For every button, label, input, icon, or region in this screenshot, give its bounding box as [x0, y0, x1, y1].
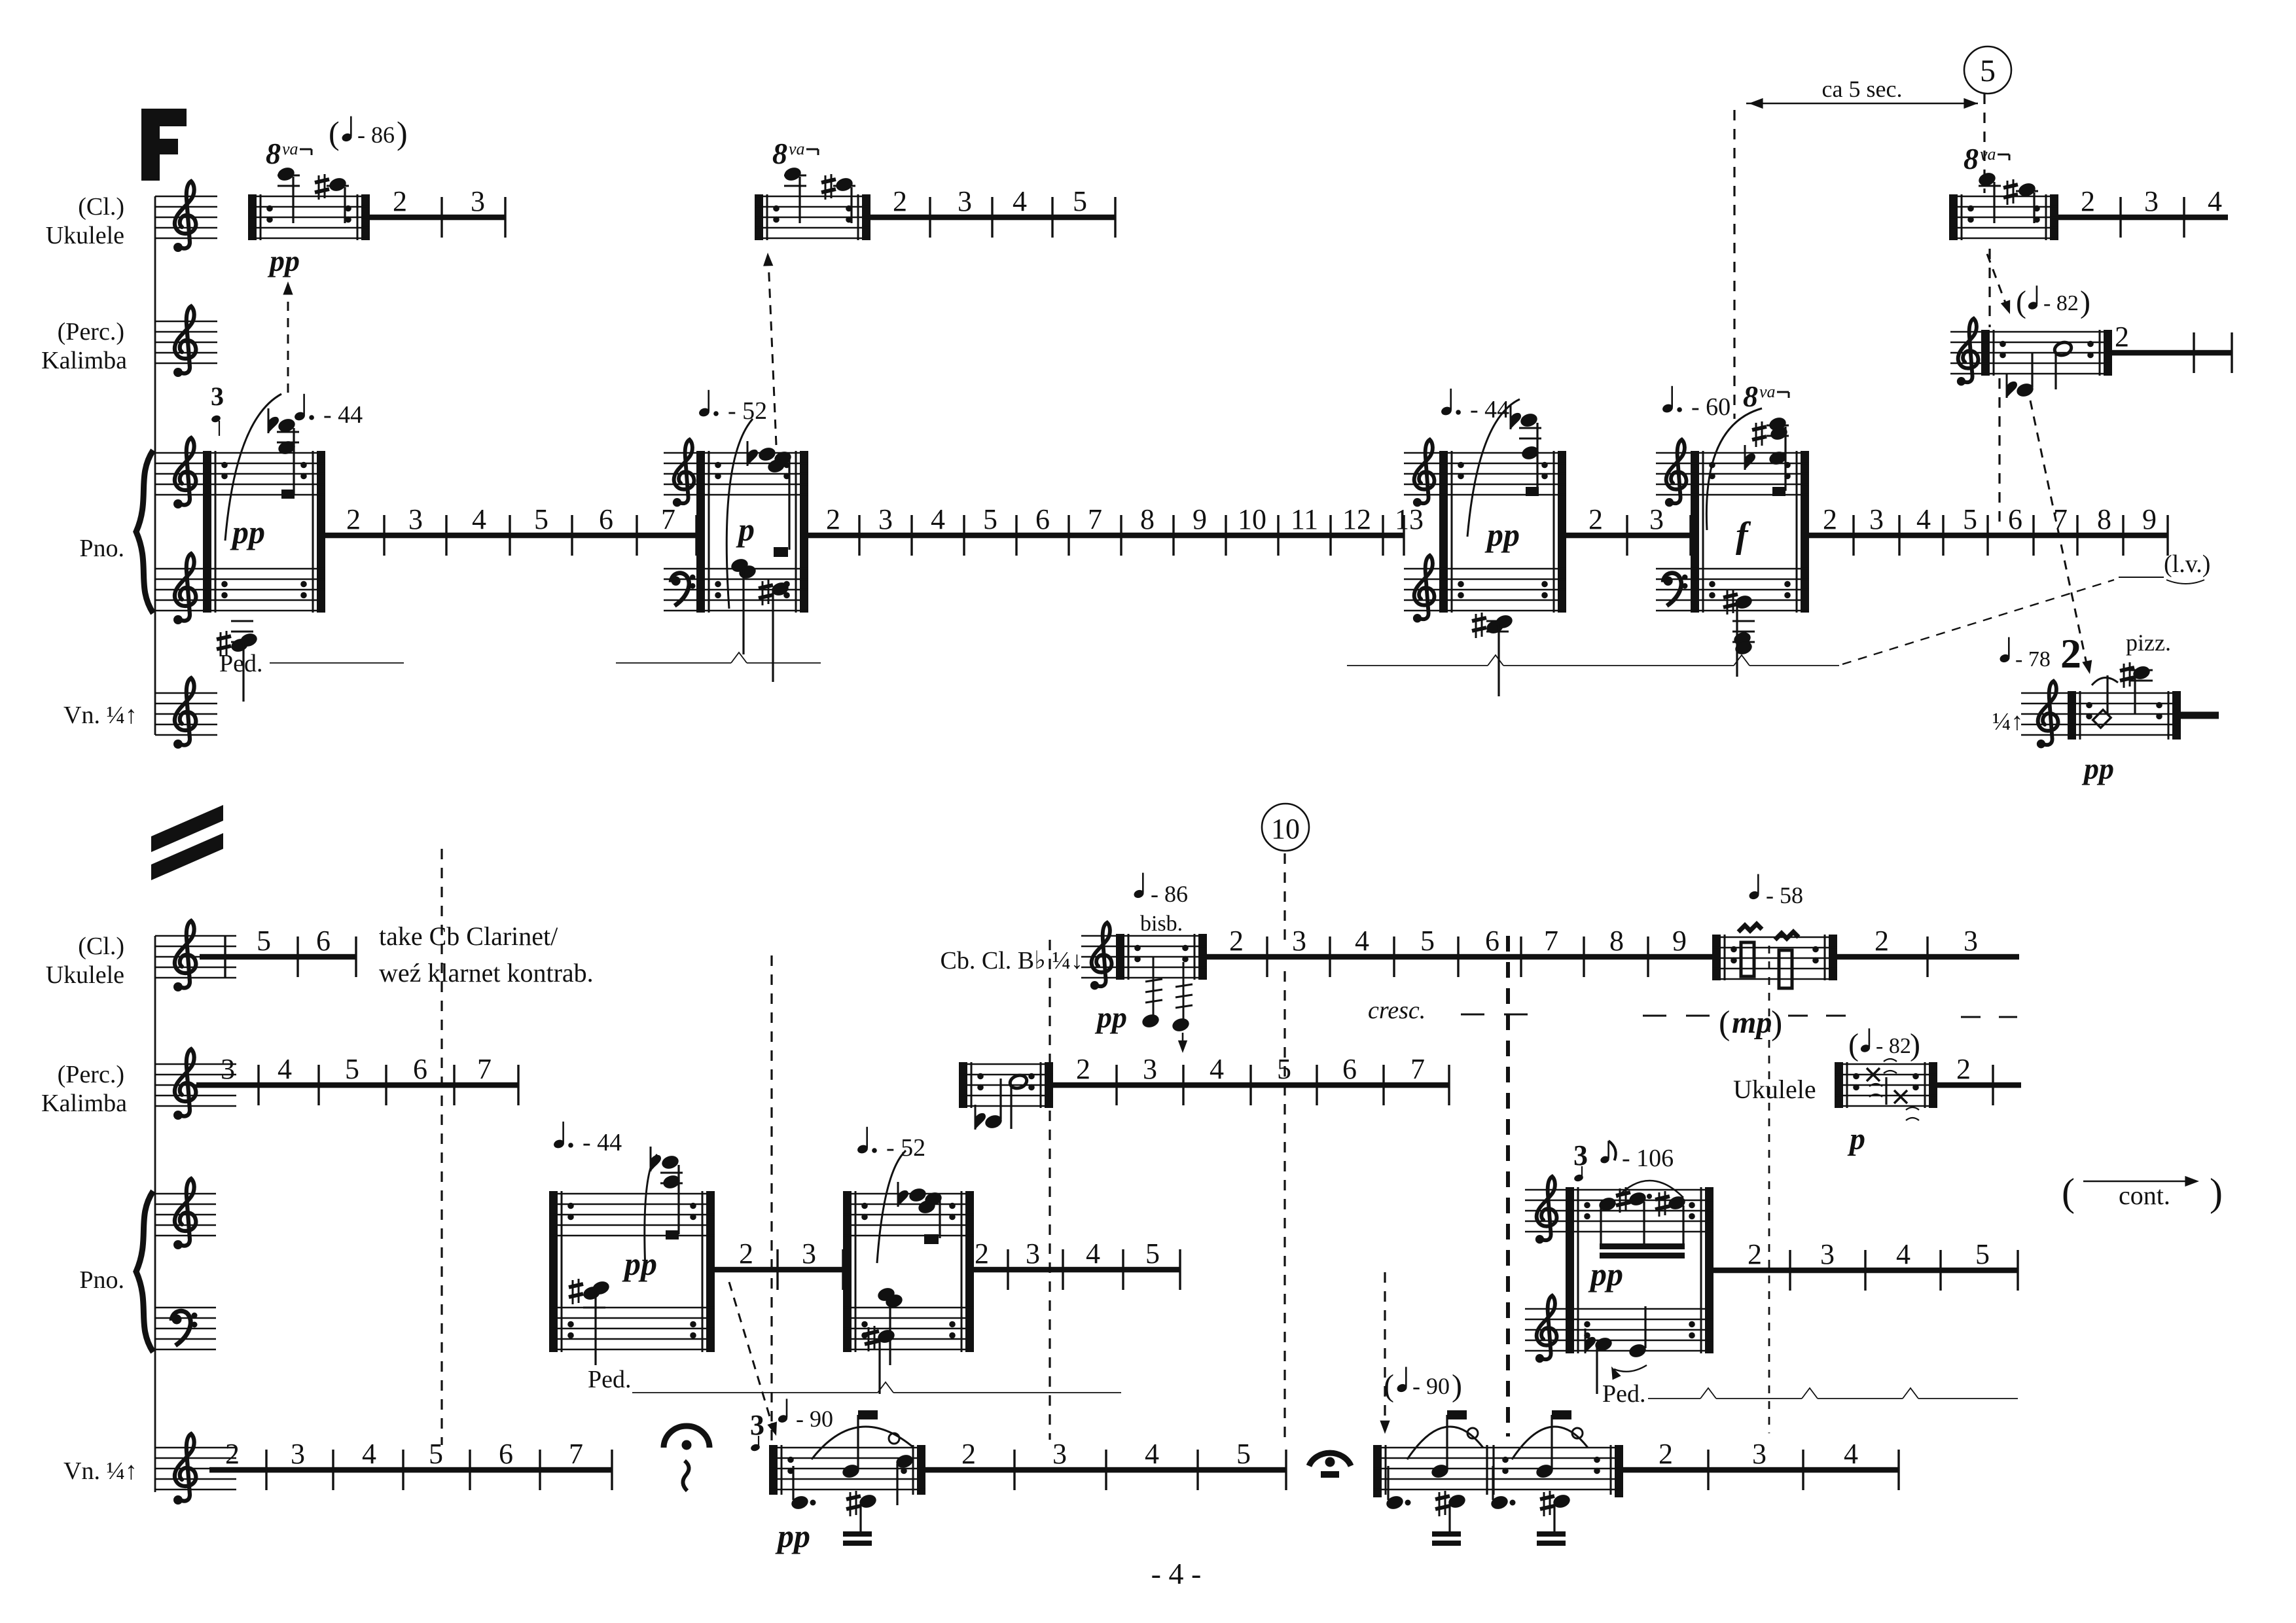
svg-text:4: 4: [1916, 503, 1931, 535]
svg-text:Ukulele: Ukulele: [1733, 1075, 1816, 1104]
svg-text:Pno.: Pno.: [79, 535, 124, 562]
piano box 4 lower notes: [1723, 589, 1755, 677]
kalimba event notes: [2006, 340, 2073, 399]
pizz. text: [2126, 630, 2171, 656]
svg-text:8: 8: [1964, 142, 1979, 175]
dashed vertical s2 b: [770, 955, 772, 1472]
violin timeline s2 left: [209, 1438, 612, 1490]
8va piano box 4: [1743, 380, 1789, 413]
svg-text:- 52: - 52: [886, 1134, 925, 1162]
svg-text:8: 8: [2097, 503, 2111, 535]
violin event notes: [2092, 662, 2153, 728]
piano box4 staff stubs: [1656, 453, 1691, 611]
svg-text:5: 5: [1980, 54, 1996, 88]
piano box s2-2 upper notes: [877, 1150, 943, 1263]
kalimba timeline s2 right: [1937, 1053, 2021, 1105]
piano timeline s2 b: [974, 1238, 1180, 1290]
svg-text:5: 5: [983, 503, 997, 535]
svg-text:pp: pp: [2081, 752, 2114, 785]
ukulele box 3 notes: [1977, 171, 2038, 223]
violin staff fragment right: [2021, 693, 2068, 735]
cresc dashes: [1461, 1014, 1710, 1016]
svg-text:Kalimba: Kalimba: [41, 347, 127, 374]
svg-text:cont.: cont.: [2119, 1181, 2170, 1210]
svg-text:- 44: - 44: [1470, 396, 1509, 423]
treble clef piano box 3 LH: [1413, 556, 1435, 623]
svg-text:(: (: [329, 115, 340, 151]
svg-text:- 90: - 90: [796, 1406, 833, 1432]
svg-text:8: 8: [1140, 503, 1155, 535]
svg-text:- 106: - 106: [1622, 1145, 1674, 1172]
svg-text:6: 6: [599, 503, 613, 535]
dashed arrow kalimba to violin: [2030, 401, 2094, 675]
svg-text:7: 7: [1088, 503, 1102, 535]
svg-text:- 4 -: - 4 -: [1151, 1557, 1202, 1590]
ukulele box 2: [755, 194, 870, 240]
long fermata: [1309, 1453, 1351, 1478]
svg-text:6: 6: [316, 925, 331, 957]
system barline (system 2): [154, 936, 156, 1492]
piano box 4 tempo: [1661, 386, 1731, 421]
svg-text:3: 3: [471, 185, 485, 217]
svg-text:3: 3: [1869, 503, 1884, 535]
svg-text:5: 5: [1236, 1438, 1251, 1470]
violin box s2-2 notes: [1385, 1410, 1483, 1546]
svg-text:take Cb Clarinet/: take Cb Clarinet/: [379, 921, 558, 951]
svg-text:): ): [2210, 1171, 2223, 1214]
svg-text:5: 5: [1145, 1238, 1160, 1270]
x noteheads: [1867, 1059, 1919, 1120]
tempo (q=90) violin: [1384, 1367, 1462, 1403]
svg-text:6: 6: [1485, 925, 1499, 957]
label (Perc.) Kalimba: [41, 318, 127, 374]
tempo (q=82) x box: [1848, 1027, 1920, 1062]
kalimba staff fragment right: [1950, 332, 1981, 374]
svg-text:4: 4: [1210, 1053, 1224, 1085]
svg-text:- 86: - 86: [1151, 881, 1188, 907]
svg-text:Ukulele: Ukulele: [46, 222, 124, 249]
svg-text:5: 5: [345, 1053, 359, 1085]
label Pno. system 2: [79, 1266, 124, 1294]
bass clef piano system 2: [171, 1311, 198, 1346]
svg-text:pp: pp: [267, 244, 300, 277]
piano s2-3 upper notes: [1598, 1181, 1687, 1258]
svg-text:4: 4: [931, 503, 945, 535]
svg-text:9: 9: [1672, 925, 1687, 957]
8va ukulele box 3: [1964, 142, 2009, 175]
staff (Cl.) Ukulele system 1: [155, 196, 217, 238]
piano s2-3 tuplet3: [1573, 1139, 1588, 1183]
svg-text:Cb. Cl. B♭ ¼↓: Cb. Cl. B♭ ¼↓: [940, 947, 1083, 974]
svg-text:2: 2: [346, 503, 361, 535]
ukulele timeline s2 right: [1837, 925, 2019, 977]
piano box s2-1 upper notes: [645, 1147, 683, 1270]
page number: [1151, 1557, 1202, 1590]
piano timeline 1a: [325, 503, 696, 556]
svg-text:weź klarnet kontrab.: weź klarnet kontrab.: [379, 958, 594, 988]
svg-text:pizz.: pizz.: [2126, 630, 2171, 656]
svg-text:- 90: - 90: [1412, 1373, 1450, 1399]
svg-text:5: 5: [1073, 185, 1087, 217]
svg-text:2: 2: [1748, 1238, 1762, 1270]
svg-text:4: 4: [278, 1053, 292, 1085]
piano box 1 upper notes: [211, 382, 299, 541]
svg-text:10: 10: [1271, 813, 1300, 845]
svg-text:3: 3: [211, 382, 224, 411]
ukulele box 3: [1949, 194, 2058, 240]
svg-text:5: 5: [1975, 1238, 1990, 1270]
piano s2-3 tempo: [1600, 1141, 1674, 1172]
cresc. text: [1368, 997, 1426, 1024]
svg-text:2: 2: [893, 185, 907, 217]
staff Vn. system 1: [155, 693, 217, 735]
label Pno.: [79, 535, 124, 562]
piano s2-3 lower notes: [1585, 1306, 1648, 1394]
piano timeline s2 a: [715, 1238, 843, 1290]
svg-text:): ): [1771, 1005, 1782, 1042]
svg-text:7: 7: [661, 503, 675, 535]
svg-text:6: 6: [499, 1438, 513, 1470]
dashed arrow piano2 to ukulele2: [762, 253, 776, 445]
treble clef piano box 4: [1665, 440, 1687, 507]
svg-text:4: 4: [2208, 185, 2222, 217]
kalimba timeline right: [2112, 321, 2232, 373]
svg-text:2: 2: [393, 185, 407, 217]
treble clef Ukulele system 2: [173, 921, 196, 991]
arrow down clarinet: [1178, 1033, 1187, 1053]
tuplet 3 q=90: [750, 1399, 833, 1452]
piano box s2-2 tempo: [856, 1127, 925, 1162]
svg-text:3: 3: [958, 185, 972, 217]
clarinet staff stub: [1081, 936, 1116, 978]
svg-text:7: 7: [477, 1053, 492, 1085]
svg-text:3: 3: [1649, 503, 1664, 535]
piano box s2-1 lower notes: [569, 1279, 611, 1365]
bass clef piano box 4: [1663, 573, 1688, 606]
violin timeline s2 mid: [925, 1438, 1286, 1490]
svg-text:8: 8: [266, 137, 281, 170]
dynamic pp piano s2-3: [1588, 1256, 1623, 1293]
Ped. piano 3-4: [1347, 655, 1839, 666]
dashed vertical at f-event: [1733, 110, 1735, 419]
cont. arrow: [2062, 1171, 2223, 1214]
svg-text:pp: pp: [1094, 1001, 1127, 1034]
dynamic pp piano box 3: [1484, 516, 1520, 553]
svg-text:2: 2: [1874, 925, 1889, 957]
ca 5 sec text: [1822, 76, 1903, 102]
svg-text:2: 2: [975, 1238, 989, 1270]
Ped. piano 1: [219, 650, 404, 677]
8va ukulele box 2: [772, 137, 818, 170]
ukulele timeline s2 left: [200, 925, 356, 977]
svg-text:Vn. ¼↑: Vn. ¼↑: [63, 1457, 137, 1485]
svg-text:(Cl.): (Cl.): [78, 933, 124, 960]
svg-text:4: 4: [1355, 925, 1369, 957]
treble clef Vn. system 2: [173, 1434, 196, 1505]
svg-text:bisb.: bisb.: [1140, 912, 1183, 936]
piano box 4: [1691, 451, 1809, 613]
Cb Cl label: [940, 947, 1083, 974]
svg-text:3: 3: [750, 1409, 764, 1441]
svg-text:Ped.: Ped.: [219, 650, 263, 677]
svg-text:3: 3: [802, 1238, 816, 1270]
staff (Perc.) Kalimba system 1: [155, 321, 217, 363]
svg-text:2: 2: [2081, 185, 2095, 217]
svg-text:3: 3: [221, 1053, 235, 1085]
piano box 3 tempo: [1440, 389, 1509, 423]
ukulele timeline s2 mid: [1207, 925, 1712, 977]
kalimba event box: [1981, 330, 2112, 376]
piano box s2-1: [549, 1191, 715, 1352]
staff (Cl.) Ukulele system 2: [155, 936, 236, 978]
svg-text:(l.v.): (l.v.): [2164, 550, 2210, 578]
label (Cl.) Ukulele system 2: [46, 933, 124, 989]
svg-text:(: (: [1848, 1027, 1859, 1062]
l.v. text: [2164, 550, 2210, 578]
kalimba s2 notes: [975, 1073, 1029, 1130]
svg-text:6: 6: [1342, 1053, 1357, 1085]
svg-text:3: 3: [1052, 1438, 1067, 1470]
svg-text:5: 5: [1963, 503, 1977, 535]
svg-text:(Perc.): (Perc.): [58, 1061, 124, 1088]
svg-text:Ped.: Ped.: [1602, 1380, 1646, 1408]
treble clef piano box 2: [673, 440, 694, 507]
Ped. piano s2-3: [1602, 1380, 2018, 1408]
svg-text:2: 2: [2115, 321, 2129, 353]
svg-text:Vn. ¼↑: Vn. ¼↑: [63, 702, 137, 729]
piano box s2-2: [843, 1191, 974, 1352]
bass clef piano box 2: [671, 573, 696, 606]
piano staves system 2: [155, 1194, 216, 1349]
svg-text:pp: pp: [1588, 1256, 1623, 1293]
Ukulele switch text: [1733, 1075, 1816, 1104]
tempo q=78 violin: [1999, 637, 2051, 671]
kalimba timeline s2 left: [196, 1053, 518, 1105]
svg-text:(: (: [2062, 1171, 2075, 1214]
svg-text:pp: pp: [775, 1518, 810, 1554]
svg-text:6: 6: [1035, 503, 1050, 535]
svg-text:): ): [397, 115, 408, 151]
treble clef Kalimba system 2: [173, 1049, 196, 1120]
label Vn. system 2: [63, 1457, 137, 1485]
piano box s2-2 lower notes: [865, 1286, 904, 1394]
dynamic p x box: [1847, 1122, 1865, 1156]
staff (Perc.) Kalimba system 2: [155, 1064, 236, 1106]
treble clef (Cl.) Ukulele: [173, 181, 196, 252]
piano box 3: [1439, 451, 1566, 613]
Ped. piano 2: [616, 652, 821, 663]
treble clef kalimba event: [1957, 319, 1979, 386]
violin timeline stub: [2181, 712, 2219, 719]
svg-text:3: 3: [1820, 1238, 1835, 1270]
svg-text:): ): [2080, 285, 2090, 319]
ukulele timeline 1: [370, 185, 505, 238]
svg-text:¼↑: ¼↑: [1992, 708, 2024, 736]
bisb. text: [1140, 912, 1183, 936]
svg-text:(: (: [2016, 285, 2026, 319]
piano box s2-3: [1566, 1187, 1713, 1353]
ukulele box 2 notes: [783, 166, 855, 223]
svg-text:8: 8: [772, 137, 787, 170]
mp text: [1719, 1005, 1782, 1042]
ukulele timeline 2: [870, 185, 1115, 238]
dashed arrow at (q-90): [1380, 1272, 1390, 1434]
svg-text:- 78: - 78: [2015, 647, 2051, 671]
dynamic pp piano box 1: [230, 514, 265, 550]
piano staff grand system 1: [155, 453, 203, 611]
piano box 3 lower notes: [1472, 613, 1514, 696]
rehearsal letter F: [141, 109, 187, 181]
violin box s2-3 notes: [1490, 1410, 1588, 1546]
svg-text:2: 2: [1588, 503, 1603, 535]
svg-text:3: 3: [2144, 185, 2159, 217]
ukulele timeline 3: [2058, 185, 2228, 238]
svg-text:2: 2: [1823, 503, 1837, 535]
dashed vertical s2 a: [440, 849, 442, 1445]
svg-text:5: 5: [1420, 925, 1435, 957]
svg-text:ca 5 sec.: ca 5 sec.: [1822, 76, 1903, 102]
ukulele x box: [1835, 1062, 1937, 1108]
clarinet box notes: [1141, 957, 1193, 1033]
svg-text:3: 3: [1026, 1238, 1040, 1270]
svg-text:Kalimba: Kalimba: [41, 1090, 127, 1117]
svg-text:3: 3: [878, 503, 893, 535]
ukulele tremolo box: [1712, 935, 1837, 980]
8va ukulele box 1: [266, 137, 312, 170]
violin boxes s2-2,3: [1373, 1445, 1623, 1497]
svg-text:- 44: - 44: [323, 401, 363, 429]
dashed line Ped to l.v.: [1842, 580, 2114, 664]
svg-text:2: 2: [1659, 1438, 1673, 1470]
svg-text:2: 2: [225, 1438, 240, 1470]
tempo (q=82) kalimba: [2016, 285, 2090, 319]
svg-text:3: 3: [1752, 1438, 1767, 1470]
treble clef piano system 2: [173, 1179, 196, 1249]
piano timeline 1c: [1566, 503, 1691, 556]
piano box 3 upper notes: [1467, 399, 1541, 537]
treble clef clarinet box: [1090, 923, 1112, 990]
svg-text:9: 9: [1193, 503, 1207, 535]
piano box 2: [696, 451, 808, 613]
dashed vertical from circle 5: [1984, 94, 2000, 529]
piano box 1 tempo: [293, 394, 363, 429]
svg-text:(: (: [1719, 1005, 1730, 1042]
svg-text:4: 4: [362, 1438, 376, 1470]
svg-text:Ukulele: Ukulele: [46, 961, 124, 989]
violin box s2-1: [769, 1445, 925, 1495]
piano box s2-1 tempo: [552, 1122, 622, 1156]
dynamic pp piano s2-1: [622, 1245, 657, 1282]
svg-text:4: 4: [1013, 185, 1027, 217]
piano box3 staff stubs: [1404, 453, 1439, 611]
dynamic pp ukulele box 1: [267, 244, 300, 277]
svg-text:8: 8: [1609, 925, 1624, 957]
svg-text:- 58: - 58: [1766, 882, 1803, 908]
svg-text:(Cl.): (Cl.): [78, 193, 124, 221]
big 2 violin: [2060, 630, 2081, 677]
piano brace system 1: [136, 450, 153, 613]
dashed arrow to q=90: [729, 1282, 781, 1437]
treble clef piano s2-3 RH: [1535, 1177, 1557, 1244]
svg-text:): ): [1910, 1027, 1920, 1062]
violin event box: [2068, 691, 2181, 740]
svg-text:mp: mp: [1732, 1005, 1772, 1040]
svg-text:cresc.: cresc.: [1368, 997, 1426, 1024]
svg-text:p: p: [1847, 1122, 1865, 1156]
treble clef piano s2-3 LH: [1535, 1296, 1557, 1363]
violin box s2-1 notes: [790, 1410, 915, 1546]
piano timeline 1b: [808, 503, 1424, 556]
treble clef Vn. system 1: [173, 678, 196, 749]
dynamic pp violin s2: [775, 1518, 810, 1554]
tempo (q=86) ukulele box 1: [329, 115, 408, 151]
svg-text:- 82: - 82: [2043, 291, 2079, 315]
svg-text:- 86: - 86: [357, 122, 395, 148]
svg-text:pp: pp: [1484, 516, 1520, 553]
svg-text:pp: pp: [622, 1245, 657, 1282]
svg-text:- 82: - 82: [1876, 1034, 1911, 1058]
svg-text:9: 9: [2142, 503, 2157, 535]
svg-text:7: 7: [569, 1438, 583, 1470]
svg-text:4: 4: [1086, 1238, 1100, 1270]
label (Perc.) Kalimba system 2: [41, 1061, 127, 1117]
mp dashes: [1788, 1016, 2017, 1017]
svg-text:): ): [1452, 1368, 1462, 1403]
svg-text:12: 12: [1342, 503, 1371, 535]
svg-text:3: 3: [291, 1438, 305, 1470]
svg-text:8: 8: [1743, 380, 1758, 413]
piano box 2 tempo: [698, 390, 767, 425]
svg-text:3: 3: [1292, 925, 1306, 957]
piano box s2-3 stubs: [1525, 1190, 1566, 1351]
svg-text:va: va: [789, 139, 805, 158]
svg-text:2: 2: [826, 503, 840, 535]
dashed vertical s2 d: [1768, 946, 1770, 1433]
dashed arrow piano1 to ukulele1: [283, 281, 293, 393]
treble clef piano LH system 1: [173, 554, 196, 624]
svg-text:7: 7: [2053, 503, 2068, 535]
dynamic p piano box 2: [736, 511, 755, 548]
dynamic pp violin: [2081, 752, 2114, 785]
svg-text:3: 3: [408, 503, 423, 535]
svg-text:Ped.: Ped.: [588, 1366, 632, 1393]
svg-text:7: 7: [1410, 1053, 1425, 1085]
piano box 2 lower notes: [730, 557, 791, 682]
svg-text:(Perc.): (Perc.): [58, 318, 124, 346]
svg-text:va: va: [282, 139, 298, 158]
tempo q=86 clarinet: [1133, 873, 1188, 907]
label (Cl.) Ukulele: [46, 193, 124, 249]
piano box 2 upper notes: [726, 419, 793, 609]
label 1/4 up violin event: [1992, 708, 2024, 736]
piano box 4 upper notes: [1706, 408, 1789, 530]
dynamic f piano box 4: [1736, 515, 1751, 556]
clarinet event box: [1116, 934, 1207, 980]
svg-text:6: 6: [2008, 503, 2022, 535]
rehearsal circle 5: [1964, 46, 2011, 94]
svg-text:7: 7: [1544, 925, 1558, 957]
svg-text:10: 10: [1238, 503, 1266, 535]
violin timeline s2 right: [1623, 1438, 1899, 1490]
treble clef violin event: [2037, 681, 2058, 749]
svg-text:Pno.: Pno.: [79, 1266, 124, 1294]
kalimba timeline s2 mid: [1053, 1053, 1449, 1105]
label Vn. 1/4 up: [63, 702, 137, 729]
svg-text:13: 13: [1395, 503, 1424, 535]
tremolo bars: [1738, 924, 1799, 988]
svg-text:5: 5: [534, 503, 548, 535]
take Cb Clarinet text: [379, 921, 594, 988]
